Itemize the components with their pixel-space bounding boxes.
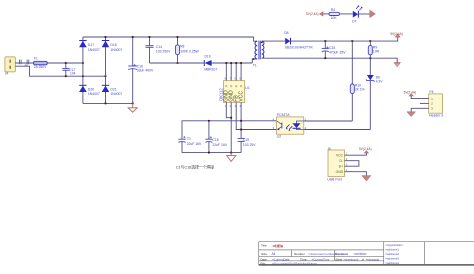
node 5V R9 <box>369 40 371 42</box>
svg-text:D20: D20 <box>88 87 94 91</box>
svg-text:USB Port: USB Port <box>327 177 342 181</box>
resistor R4 <box>329 8 339 20</box>
ground primary <box>128 103 137 112</box>
svg-text:Sheet: Sheet <box>335 257 342 261</box>
svg-text:22uF 16V: 22uF 16V <box>187 142 202 146</box>
connector J4 <box>5 57 15 76</box>
svg-text:Revision: Revision <box>335 252 348 256</box>
svg-text:P4: P4 <box>429 90 433 94</box>
svg-text:=DocumentFullPathAndName: =DocumentFullPathAndName <box>272 261 317 265</box>
svg-text:470uF 25V: 470uF 25V <box>329 51 346 55</box>
title block <box>259 242 474 265</box>
svg-text:=organization: =organization <box>385 243 403 247</box>
svg-text:100K 0.25W: 100K 0.25W <box>180 49 199 53</box>
node top rail C16 <box>132 36 134 38</box>
svg-text:A4: A4 <box>272 252 276 256</box>
node VCC pin4 <box>240 120 242 122</box>
svg-text:VCC: VCC <box>336 153 344 157</box>
svg-text:103 250V: 103 250V <box>156 50 171 54</box>
capacitor C15 <box>322 41 346 58</box>
wire N input <box>15 66 105 76</box>
wire left bridge rail <box>82 37 84 103</box>
wire p4 pin1 <box>411 96 429 99</box>
svg-text:U2: U2 <box>277 135 281 139</box>
svg-text:=documentnumber: =documentnumber <box>308 252 335 256</box>
svg-text:2A 250V: 2A 250V <box>34 65 47 69</box>
fuse F1 <box>34 56 48 69</box>
svg-text:=sheetnumb: =sheetnumb <box>344 257 359 261</box>
wire usb vcc <box>345 153 367 155</box>
diode D17 1N4007 <box>79 41 100 53</box>
wire opto pin1 to R10 <box>304 120 353 122</box>
node FB crossing <box>240 129 242 131</box>
IC U1 DK112 <box>218 63 249 108</box>
node top rail right rail <box>105 36 107 38</box>
resistor R10 <box>350 41 364 121</box>
wire fuse to bridge <box>47 62 83 64</box>
svg-text:MBR107: MBR107 <box>204 68 217 72</box>
svg-text:D8: D8 <box>284 31 288 35</box>
title block texts <box>260 243 403 265</box>
wire DC- bottom rail <box>83 102 133 104</box>
ground secondary lower <box>227 153 236 162</box>
svg-text:5V(2.4A): 5V(2.4A) <box>404 90 417 94</box>
wire drain <box>211 62 252 64</box>
ground usb <box>362 176 371 181</box>
svg-text:Header 3: Header 3 <box>429 113 443 117</box>
node AC1 left rail <box>82 62 84 64</box>
svg-text:=address1: =address1 <box>385 248 399 252</box>
svg-text:=address3: =address3 <box>385 257 399 261</box>
svg-text:22uF 16V: 22uF 16V <box>212 143 227 147</box>
node fuse/C17 <box>65 62 67 64</box>
svg-text:C14: C14 <box>156 45 162 49</box>
capacitor C1 <box>178 136 202 153</box>
svg-text:C1: C1 <box>187 137 191 141</box>
power port 5V usb <box>359 147 372 153</box>
power port 5V led row <box>306 12 323 16</box>
svg-text:Number: Number <box>294 252 305 256</box>
node 5V R10 <box>351 40 353 42</box>
svg-text:1N4007: 1N4007 <box>110 48 122 52</box>
wire opto pin2 to zener <box>304 129 371 131</box>
wire snubber <box>150 62 205 64</box>
svg-text:File:: File: <box>260 261 266 265</box>
svg-text:1N4007: 1N4007 <box>88 92 100 96</box>
node return R9 zener <box>369 57 371 59</box>
svg-text:1N4007: 1N4007 <box>88 48 100 52</box>
resistor R9 <box>368 41 379 58</box>
node drain pin5 <box>240 62 242 64</box>
wire p4 pin2 stub <box>420 102 429 104</box>
capacitor C17 <box>62 63 75 76</box>
capacitor ticks on line <box>19 60 28 65</box>
wire VCC rail <box>182 121 277 139</box>
svg-text:5V(2.4A): 5V(2.4A) <box>306 12 319 16</box>
wire p4 pin3 <box>411 108 429 111</box>
svg-text:104: 104 <box>70 71 76 75</box>
wire pin2 gnd <box>230 102 232 152</box>
wire 5V rail <box>290 37 397 42</box>
resistor R8 <box>176 37 200 63</box>
node drain pin7 <box>230 62 232 64</box>
node drain pin6 <box>235 62 237 64</box>
svg-text:Title: Title <box>261 243 267 247</box>
wire right bridge rail <box>105 37 107 103</box>
svg-text:=title: =title <box>273 244 284 249</box>
svg-text:103 25V: 103 25V <box>243 143 256 147</box>
USB port J6 <box>327 146 348 181</box>
svg-text:33uF 400V: 33uF 400V <box>137 69 154 73</box>
svg-text:F1: F1 <box>34 56 38 60</box>
wire usb gnd <box>345 172 367 176</box>
svg-text:T1: T1 <box>253 64 257 68</box>
svg-text:5V(2.4A): 5V(2.4A) <box>390 32 403 36</box>
wire led row <box>323 13 353 15</box>
node VCC C18 <box>208 120 210 122</box>
power port 5V p4 <box>404 90 417 96</box>
node wire crossing left rail <box>82 75 84 77</box>
wire secondary return <box>262 58 397 62</box>
svg-text:D-: D- <box>340 159 343 163</box>
capacitor C18 <box>205 121 227 153</box>
svg-text:Size: Size <box>261 252 267 256</box>
wire led to port <box>358 13 369 15</box>
diode D21 1N4007 <box>102 85 123 96</box>
svg-text:=address4: =address4 <box>385 261 399 265</box>
power port GND secondary <box>394 63 401 67</box>
node 5V C15 <box>324 40 326 42</box>
node top rail R8 <box>177 36 179 38</box>
wire pin4 VCC <box>240 102 242 138</box>
svg-text:R9: R9 <box>373 45 377 49</box>
svg-text:D19: D19 <box>205 55 211 59</box>
svg-text:5V(2.4A): 5V(2.4A) <box>359 147 372 151</box>
svg-text:PC817A: PC817A <box>277 113 290 117</box>
wire DC+ top rail <box>83 36 254 38</box>
node gnd loop <box>230 117 232 119</box>
svg-text:=sheettotal: =sheettotal <box>366 257 380 261</box>
node bottom rail C16 <box>132 103 134 105</box>
svg-text:SB20100/A42TTR: SB20100/A42TTR <box>285 46 314 50</box>
transformer T1 <box>252 37 264 68</box>
diode D8 <box>284 31 313 50</box>
ground p4 <box>407 112 416 117</box>
svg-text:C19: C19 <box>243 138 249 142</box>
node gnd C18 <box>208 152 210 154</box>
svg-text:C18: C18 <box>212 138 218 142</box>
red mark <box>25 64 28 66</box>
node gnd pin2 <box>230 152 232 154</box>
node bottom rail right rail <box>105 103 107 105</box>
wire usb data loop <box>345 161 359 167</box>
svg-text:D18: D18 <box>110 43 116 47</box>
node snubber R8 <box>177 62 179 64</box>
svg-text:J6: J6 <box>328 146 332 150</box>
header P4 <box>429 90 443 117</box>
node return C15 <box>324 57 326 59</box>
svg-text:J4: J4 <box>5 72 9 76</box>
svg-text:GND: GND <box>336 170 344 174</box>
svg-text:C15: C15 <box>329 46 335 50</box>
diode D19 MBR107 <box>204 55 217 72</box>
svg-text:2K 1%: 2K 1% <box>355 88 365 92</box>
svg-text:D7: D7 <box>352 19 356 23</box>
svg-text:10R: 10R <box>373 50 380 54</box>
wire pin1 gnd loop <box>226 102 231 117</box>
svg-text:R4: R4 <box>331 8 335 12</box>
svg-text:4.3V: 4.3V <box>376 80 384 84</box>
capacitor C14 <box>146 37 172 63</box>
node drain pin8 <box>225 62 227 64</box>
LED D7 <box>352 5 363 23</box>
node top rail C14 <box>149 36 151 38</box>
optocoupler U2 PC817A <box>273 113 307 139</box>
svg-text:U1: U1 <box>245 86 250 90</box>
node AC2 right rail <box>105 75 107 77</box>
svg-text:=revision: =revision <box>354 252 367 256</box>
svg-text:VCC: VCC <box>239 91 245 102</box>
capacitor C16 <box>128 37 154 103</box>
wire pin3 FB <box>236 102 276 129</box>
svg-text:D+: D+ <box>339 164 343 168</box>
svg-text:R8: R8 <box>180 45 184 49</box>
power port 5V top right <box>390 32 403 37</box>
node C17 bottom <box>65 75 67 77</box>
svg-text:of: of <box>362 257 364 261</box>
diode D20 1N4007 <box>79 85 100 96</box>
svg-text:1N4007: 1N4007 <box>110 92 122 96</box>
capacitor C19 <box>238 138 257 153</box>
power port arrow right <box>370 10 376 18</box>
svg-text:=address2: =address2 <box>385 252 399 256</box>
wire L input <box>15 62 33 64</box>
wire gnd rail lower <box>182 152 241 154</box>
svg-text:DK112: DK112 <box>218 88 223 101</box>
svg-text:C1与C18选择一个焊接: C1与C18选择一个焊接 <box>176 165 214 170</box>
svg-text:10K: 10K <box>331 16 338 20</box>
svg-text:D17: D17 <box>88 43 94 47</box>
diode D18 1N4007 <box>102 41 123 53</box>
svg-text:D21: D21 <box>110 87 116 91</box>
wire secondary top <box>262 40 285 42</box>
title block bottom border <box>259 264 474 266</box>
zener D6 4.3V <box>366 58 383 129</box>
